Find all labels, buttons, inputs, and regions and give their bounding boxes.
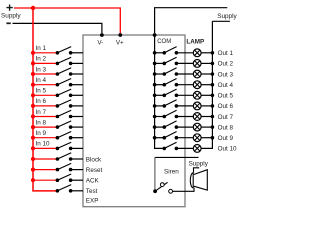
relay contact K7 left	[163, 115, 167, 119]
relay contact K4 right	[175, 83, 179, 87]
wire rail to switch row 6	[33, 105, 57, 107]
switch S4 (In 4) right contact	[69, 83, 73, 87]
lamp L8 (Out 8)	[193, 123, 201, 131]
node out rail junction row 6	[211, 104, 215, 108]
switch S15 (siren) left contact	[153, 189, 157, 193]
relay contact K10 left	[163, 147, 167, 151]
switch S1 (In 1) left contact	[56, 51, 60, 55]
node rail junction row 2	[31, 61, 35, 65]
relay contact K2 lever	[164, 57, 176, 63]
svg-text:Out 5: Out 5	[218, 93, 234, 100]
wire contact K2 to lamp	[176, 62, 193, 64]
relay contact K3 left	[163, 72, 167, 76]
wire lamp L2 to rail	[201, 62, 213, 64]
svg-text:In 4: In 4	[36, 77, 47, 84]
svg-text:In 1: In 1	[36, 45, 47, 52]
wire speaker to supply stub	[194, 168, 200, 173]
switch S9 (In 9) lever	[57, 132, 71, 138]
svg-text:In 5: In 5	[36, 88, 47, 95]
switch S13 (ACK) lever	[57, 174, 71, 180]
node out rail junction row 3	[211, 72, 215, 76]
switch S2 (In 2) right contact	[69, 62, 73, 66]
wire COM feed tap 6	[155, 105, 165, 107]
wire rail to switch row 8	[33, 126, 57, 128]
node rail junction row 13	[31, 178, 35, 182]
wire siren switch feed	[154, 157, 156, 189]
supply + terminal symbol	[6, 5, 12, 11]
wire switch S14 to unit	[71, 190, 83, 192]
switch S10 (In 10) left contact	[56, 147, 60, 151]
svg-text:Out 7: Out 7	[218, 114, 234, 121]
svg-text:Out 3: Out 3	[218, 71, 234, 78]
relay contact K7 lever	[164, 110, 176, 116]
wire supply+ to V+	[14, 8, 120, 33]
wire rail to switch row 2	[33, 62, 57, 64]
node COM feed junction row 8	[153, 125, 157, 129]
switch S14 (Test) right contact	[69, 189, 73, 193]
svg-text:Supply: Supply	[1, 12, 21, 19]
switch S5 (In 5) left contact	[56, 94, 60, 98]
wire contact K8 to lamp	[176, 126, 193, 128]
wire lamp supply- to out rail	[212, 20, 230, 22]
wire rail to switch row 12	[33, 169, 57, 171]
relay contact K8 right	[175, 125, 179, 129]
node rail junction row 6	[31, 104, 35, 108]
node COM feed junction row 7	[153, 115, 157, 119]
pin V+	[118, 33, 122, 37]
switch S3 (In 3) left contact	[56, 72, 60, 76]
switch S3 (In 3) lever	[57, 68, 71, 74]
switch S10 (In 10) lever	[57, 142, 71, 148]
switch S7 (In 7) lever	[57, 110, 71, 116]
wire contact K3 to lamp	[176, 73, 193, 75]
switch S8 (In 8) left contact	[56, 125, 60, 129]
switch S6 (In 6) lever	[57, 100, 71, 106]
switch S13 (ACK) left contact	[56, 178, 60, 182]
switch S8 (In 8) right contact	[69, 125, 73, 129]
lamp L3 (Out 3)	[193, 70, 201, 78]
wire lamp L4 to rail	[201, 84, 213, 86]
wire COM feed tap 5	[155, 94, 165, 96]
relay contact K6 right	[175, 104, 179, 108]
svg-text:EXP: EXP	[86, 198, 99, 205]
wire contact K7 to lamp	[176, 116, 193, 118]
lamp L1 (Out 1)	[193, 49, 201, 57]
relay contact K8 lever	[164, 121, 176, 127]
node COM feed entry	[153, 33, 157, 37]
wire switch S12 to unit	[71, 169, 83, 171]
wire switch S9 to unit	[71, 137, 83, 139]
node COM feed junction row 6	[153, 104, 157, 108]
wire switch S2 to unit	[71, 62, 83, 64]
svg-text:ACK: ACK	[86, 178, 100, 185]
relay contact K9 lever	[164, 132, 176, 138]
switch S1 (In 1) right contact	[69, 51, 73, 55]
wire COM feed tap 7	[155, 116, 165, 118]
annunciator unit box	[83, 35, 185, 207]
switch S7 (In 7) right contact	[69, 115, 73, 119]
svg-text:Out 9: Out 9	[218, 135, 234, 142]
switch S5 (In 5) right contact	[69, 94, 73, 98]
wire contact K5 to lamp	[176, 94, 193, 96]
switch S15 (siren) lever	[155, 182, 168, 191]
wire switch S3 to unit	[71, 73, 83, 75]
svg-text:Out 8: Out 8	[218, 124, 234, 131]
switch S9 (In 9) right contact	[69, 136, 73, 140]
switch S3 (In 3) right contact	[69, 72, 73, 76]
lamp L9 (Out 9)	[193, 134, 201, 142]
relay contact K3 right	[175, 72, 179, 76]
svg-text:Out 10: Out 10	[218, 146, 237, 153]
wire rail to switch row 7	[33, 116, 57, 118]
wire COM feed tap 1	[155, 52, 165, 54]
svg-text:Out 1: Out 1	[218, 50, 234, 57]
wire COM feed tap 9	[155, 137, 165, 139]
svg-text:Supply: Supply	[217, 13, 237, 20]
node rail junction row 3	[31, 72, 35, 76]
speaker LS1 horn	[194, 170, 208, 190]
relay contact K7 right	[175, 115, 179, 119]
node COM feed junction row 3	[153, 72, 157, 76]
svg-text:V+: V+	[116, 39, 124, 46]
switch S4 (In 4) left contact	[56, 83, 60, 87]
switch S13 (ACK) right contact	[69, 178, 73, 182]
wire COM feed tap 8	[155, 126, 165, 128]
switch S10 (In 10) right contact	[69, 147, 73, 151]
node COM feed junction row 1	[153, 51, 157, 55]
wire rail to switch row 1	[33, 52, 57, 54]
svg-text:V-: V-	[97, 39, 103, 46]
switch S11 (Block) lever	[57, 153, 71, 159]
switch S8 (In 8) lever	[57, 121, 71, 127]
node out rail junction row 5	[211, 94, 215, 98]
switch S15 (siren) pivot circle	[160, 183, 164, 187]
relay contact K1 lever	[164, 47, 176, 53]
supply - terminal symbol	[6, 22, 10, 24]
relay contact K6 left	[163, 104, 167, 108]
svg-text:Out 4: Out 4	[218, 82, 234, 89]
wire lamp L5 to rail	[201, 94, 213, 96]
svg-text:Reset: Reset	[86, 167, 103, 174]
relay contact K2 right	[175, 62, 179, 66]
wire rail to switch row 3	[33, 73, 57, 75]
relay contact K10 lever	[164, 142, 176, 148]
relay contact K9 right	[175, 136, 179, 140]
relay contact K1 left	[163, 51, 167, 55]
node rail junction row 9	[31, 136, 35, 140]
pin V-	[100, 33, 104, 37]
wire COM feed tap 3	[155, 73, 165, 75]
svg-text:Siren: Siren	[164, 168, 179, 175]
wire out return rail	[201, 21, 213, 148]
switch S14 (Test) lever	[57, 185, 71, 191]
switch S1 (In 1) lever	[57, 47, 71, 53]
wire contact K6 to lamp	[176, 105, 193, 107]
switch S14 (Test) left contact	[56, 189, 60, 193]
switch S12 (Reset) left contact	[56, 168, 60, 172]
node out rail junction row 4	[211, 83, 215, 87]
wire switch S1 to unit	[71, 52, 83, 54]
node rail junction row 11	[31, 157, 35, 161]
wire rail to switch row 11	[33, 158, 57, 160]
speaker LS1 driver	[190, 173, 193, 188]
wire siren supply stub	[155, 156, 199, 158]
svg-text:Test: Test	[86, 188, 98, 195]
wire switch S11 to unit	[71, 158, 83, 160]
wire lamp supply+ feed	[155, 8, 228, 33]
wire COM feed tap 4	[155, 84, 165, 86]
wire COM feed tap 2	[155, 62, 165, 64]
relay contact K6 lever	[164, 100, 176, 106]
wire rail to switch row 10	[33, 147, 57, 149]
node COM feed junction row 2	[153, 62, 157, 66]
switch S11 (Block) left contact	[56, 157, 60, 161]
switch S6 (In 6) right contact	[69, 104, 73, 108]
wire left supply rail	[33, 8, 57, 191]
svg-text:In 8: In 8	[36, 119, 47, 126]
node rail junction row 12	[31, 168, 35, 172]
lamp L7 (Out 7)	[193, 113, 201, 121]
wire lamp L9 to rail	[201, 137, 213, 139]
svg-text:Supply: Supply	[189, 160, 209, 167]
relay contact K4 left	[163, 83, 167, 87]
node out rail junction row 2	[211, 62, 215, 66]
wire rail to switch row 5	[33, 94, 57, 96]
switch S15 (siren) right contact	[169, 189, 173, 193]
node out rail junction row 8	[211, 125, 215, 129]
wire switch S8 to unit	[71, 126, 83, 128]
wire switch S13 to unit	[71, 179, 83, 181]
wire contact K9 to lamp	[176, 137, 193, 139]
svg-text:In 3: In 3	[36, 66, 47, 73]
svg-text:LAMP: LAMP	[186, 38, 204, 45]
wire lamp L6 to rail	[201, 105, 213, 107]
wire contact K10 to lamp	[176, 147, 193, 149]
wire lamp L3 to rail	[201, 73, 213, 75]
wire rail to switch row 13	[33, 179, 57, 181]
svg-text:In 7: In 7	[36, 109, 47, 116]
relay contact K9 left	[163, 136, 167, 140]
wire switch S5 to unit	[71, 94, 83, 96]
node out rail junction row 9	[211, 136, 215, 140]
wire lamp L7 to rail	[201, 116, 213, 118]
wire COM feed line	[155, 35, 165, 148]
svg-text:Out 6: Out 6	[218, 103, 234, 110]
relay contact K5 right	[175, 94, 179, 98]
switch S2 (In 2) lever	[57, 57, 71, 63]
node rail junction row 5	[31, 93, 35, 97]
switch S12 (Reset) right contact	[69, 168, 73, 172]
node out rail junction row 7	[211, 115, 215, 119]
relay contact K1 right	[175, 51, 179, 55]
wire supply- to V-	[13, 23, 102, 33]
wire switch S6 to unit	[71, 105, 83, 107]
node rail junction row 4	[31, 83, 35, 87]
wire rail to switch row 4	[33, 84, 57, 86]
switch S4 (In 4) lever	[57, 79, 71, 85]
svg-text:Out 2: Out 2	[218, 61, 234, 68]
wire contact K1 to lamp	[176, 52, 193, 54]
wire siren switch to speaker	[173, 188, 194, 192]
switch S5 (In 5) lever	[57, 89, 71, 95]
svg-text:COM: COM	[157, 39, 171, 45]
wire lamp L8 to rail	[201, 126, 213, 128]
relay contact K5 lever	[164, 89, 176, 95]
node rail junction row 1	[31, 51, 35, 55]
relay contact K5 left	[163, 94, 167, 98]
wire lamp L1 to rail	[201, 52, 213, 54]
node COM feed junction row 9	[153, 136, 157, 140]
lamp L5 (Out 5)	[193, 91, 201, 99]
switch S9 (In 9) left contact	[56, 136, 60, 140]
node rail junction row 7	[31, 114, 35, 118]
svg-text:In 2: In 2	[36, 56, 47, 63]
node rail junction row 8	[31, 125, 35, 129]
wire contact K4 to lamp	[176, 84, 193, 86]
lamp L6 (Out 6)	[193, 102, 201, 110]
lamp L10 (Out 10)	[193, 145, 201, 153]
switch S7 (In 7) left contact	[56, 115, 60, 119]
switch S6 (In 6) left contact	[56, 104, 60, 108]
svg-text:In 10: In 10	[36, 141, 51, 148]
node out rail junction row 1	[211, 51, 215, 55]
switch S12 (Reset) lever	[57, 163, 71, 169]
relay contact K8 left	[163, 125, 167, 129]
relay contact K2 left	[163, 62, 167, 66]
switch S11 (Block) right contact	[69, 157, 73, 161]
node COM feed junction row 4	[153, 83, 157, 87]
wire rail to switch row 9	[33, 137, 57, 139]
wire switch S7 to unit	[71, 116, 83, 118]
relay contact K3 lever	[164, 68, 176, 74]
svg-text:Block: Block	[86, 156, 102, 163]
lamp L4 (Out 4)	[193, 81, 201, 89]
relay contact K10 right	[175, 147, 179, 151]
node supply+ rail junction	[31, 6, 35, 10]
node rail junction row 10	[31, 146, 35, 150]
switch S2 (In 2) left contact	[56, 62, 60, 66]
node COM feed junction row 5	[153, 94, 157, 98]
relay contact K4 lever	[164, 79, 176, 85]
svg-text:In 9: In 9	[36, 130, 47, 137]
svg-text:In 6: In 6	[36, 98, 47, 105]
wire switch S10 to unit	[71, 147, 83, 149]
wire switch S4 to unit	[71, 84, 83, 86]
lamp L2 (Out 2)	[193, 60, 201, 68]
